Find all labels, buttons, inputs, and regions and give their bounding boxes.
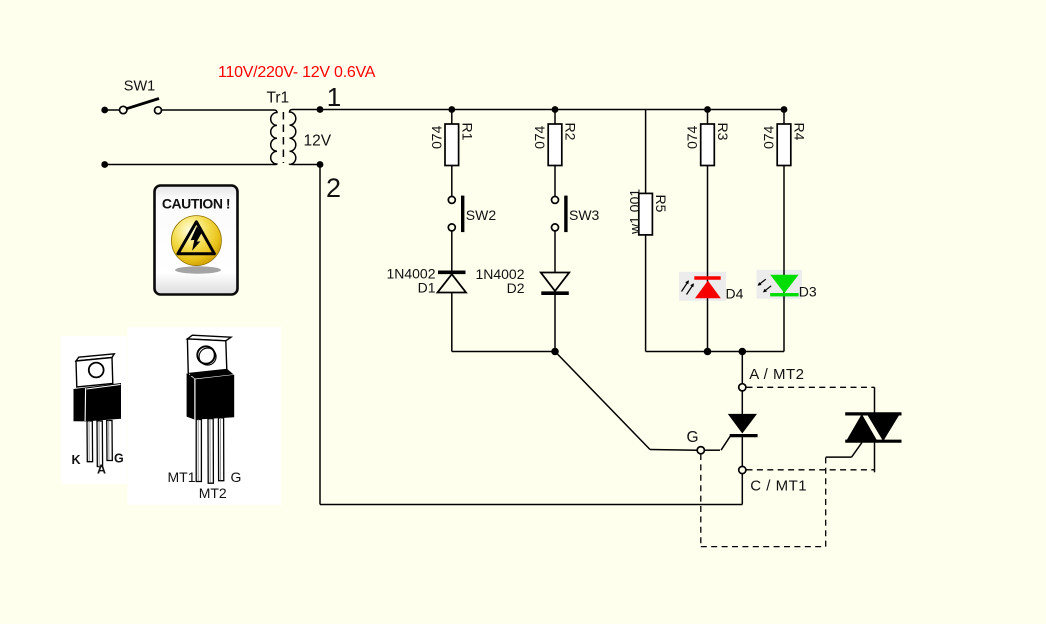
wire bus to R4 [783, 110, 785, 125]
svg-text:G: G [114, 452, 124, 466]
node 2 [317, 161, 324, 168]
LED D3 background [757, 270, 803, 299]
svg-text:Tr1: Tr1 [267, 90, 290, 107]
svg-text:074: 074 [761, 125, 777, 149]
wire diagonal to gate [555, 352, 650, 450]
terminal C/MT1 [739, 466, 746, 473]
wire triac MT2 lead [874, 387, 876, 414]
wire R3 to D4 [707, 166, 709, 352]
svg-text:R3: R3 [715, 123, 731, 141]
svg-text:R4: R4 [792, 123, 808, 141]
LED D3 green [758, 275, 799, 295]
wire triac gate horizontal [826, 456, 852, 458]
switch SW2 [448, 196, 462, 233]
leg inner lines big [197, 420, 199, 482]
resistor R4 [777, 124, 791, 166]
resistor R1 [445, 124, 459, 166]
svg-text:G: G [231, 469, 242, 485]
wire LED bus bottom [646, 351, 784, 353]
LED D4 background [679, 272, 726, 301]
svg-text:074: 074 [429, 125, 445, 149]
junction thyristor top [739, 348, 747, 356]
junction R1 top [448, 106, 455, 113]
svg-text:1: 1 [327, 82, 341, 112]
svg-text:R2: R2 [563, 123, 579, 141]
junction R3 bottom [704, 348, 712, 356]
wire node2 down [319, 165, 321, 505]
svg-text:D1: D1 [418, 280, 436, 296]
caution sign [155, 186, 238, 295]
svg-text:SW1: SW1 [124, 79, 155, 95]
LED D4 red [682, 278, 721, 298]
body divider vertical [84, 388, 87, 421]
body divider diagonal [87, 385, 121, 390]
svg-text:MT1: MT1 [168, 469, 196, 485]
terminal A/MT2 [739, 384, 746, 391]
svg-text:12V: 12V [304, 133, 332, 150]
wire SW2 to D1 [451, 231, 453, 272]
wire R2 to SW3 [554, 166, 556, 197]
wire bus to R2 [554, 110, 556, 125]
transformer Tr1 primary coil [271, 110, 277, 165]
svg-text:A: A [97, 463, 106, 477]
wire to G terminal [650, 449, 697, 452]
resistor R5 [639, 193, 653, 235]
tab hole [197, 346, 214, 363]
package TRIAC TO-220 photo [128, 327, 282, 505]
svg-text:SW3: SW3 [569, 207, 600, 223]
leg G [107, 421, 113, 461]
terminal dot primary top [101, 107, 108, 114]
svg-text:w1 001: w1 001 [627, 189, 643, 235]
dashed wire bottom [701, 546, 826, 548]
dashed wire A/MT2 to triac MT2 [747, 386, 875, 388]
svg-text:D3: D3 [799, 284, 817, 300]
junction R3 top [704, 106, 711, 113]
wire SCR cathode down [741, 436, 743, 467]
wire bus to R5 [645, 110, 647, 194]
tab top face [187, 335, 231, 341]
wire D1 down [451, 293, 453, 352]
svg-text:G: G [687, 429, 699, 446]
wire bottom rail up to C/MT1 [741, 474, 743, 505]
wire secondary top to node 1 [293, 109, 321, 111]
svg-text:2: 2 [326, 173, 341, 203]
svg-text:SW2: SW2 [466, 207, 497, 223]
wire top bus [320, 109, 784, 111]
tab top face [76, 354, 114, 361]
diode D1 [438, 272, 467, 292]
svg-text:C / MT1: C / MT1 [750, 478, 807, 495]
node 1 [317, 106, 324, 113]
wire R1 to SW2 [451, 166, 453, 197]
svg-text:CAUTION !: CAUTION ! [162, 196, 230, 212]
wire primary bottom [105, 164, 274, 166]
tab hole [89, 363, 104, 378]
body left face [187, 373, 195, 419]
leg K [87, 421, 93, 462]
svg-text:074: 074 [532, 125, 548, 149]
wire bus to R3 [707, 110, 709, 125]
resistor R2 [548, 124, 562, 166]
dashed wire up to triac gate [825, 457, 827, 546]
wire G to gate [704, 449, 720, 451]
svg-text:R5: R5 [653, 195, 669, 213]
wire SW3 to D2 [554, 231, 556, 273]
body top face [188, 369, 233, 379]
leg MT1 [196, 419, 201, 481]
junction R2 top [552, 106, 559, 113]
dashed wire C/MT1 to triac MT1 [747, 469, 875, 471]
wire triac MT1 lead [874, 441, 876, 472]
tab front face [76, 358, 113, 388]
svg-text:A / MT2: A / MT2 [749, 366, 804, 383]
dashed wire G down [700, 454, 702, 547]
triac [845, 414, 901, 441]
terminal dot primary bottom [101, 161, 108, 168]
wire R4 to D3 [783, 166, 785, 352]
svg-text:D4: D4 [726, 286, 744, 302]
leg MT2 [208, 419, 213, 484]
thyristor SCR [728, 414, 758, 436]
leg inner lines [88, 421, 90, 461]
leg G [218, 418, 223, 481]
svg-text:MT2: MT2 [199, 485, 227, 501]
body front face [196, 375, 235, 420]
svg-text:110V/220V- 12V 0.6VA: 110V/220V- 12V 0.6VA [218, 64, 376, 81]
resistor R3 [701, 124, 715, 166]
body [74, 383, 122, 421]
wire gate diagonal [721, 436, 731, 450]
wire secondary bottom to node 2 [293, 164, 321, 166]
leg A [97, 421, 103, 467]
switch SW3 [552, 196, 566, 233]
svg-text:074: 074 [684, 125, 700, 149]
wire D2 down [554, 293, 556, 351]
wire D1 to junction [452, 351, 555, 353]
svg-text:D2: D2 [507, 280, 525, 296]
wire to A/MT2 terminal [741, 352, 743, 384]
wire A/MT2 to SCR [741, 391, 743, 414]
junction D wires [551, 348, 559, 356]
junction R4 top [781, 106, 788, 113]
switch SW1 [120, 99, 162, 114]
wire primary top left [107, 109, 120, 111]
package SCR TO-220 photo [61, 336, 127, 484]
wire switch to transformer [162, 109, 275, 111]
tab front face [187, 339, 227, 376]
svg-text:K: K [72, 453, 81, 467]
terminal G [697, 447, 704, 454]
wire triac gate diagonal [852, 443, 862, 458]
transformer Tr1 secondary coil [290, 110, 296, 165]
wire bus to R1 [451, 110, 453, 125]
diode D2 [541, 273, 569, 294]
wire bottom rail [320, 504, 742, 506]
wire R5 down [645, 235, 647, 352]
transformer core [282, 112, 284, 163]
svg-text:R1: R1 [459, 123, 475, 141]
